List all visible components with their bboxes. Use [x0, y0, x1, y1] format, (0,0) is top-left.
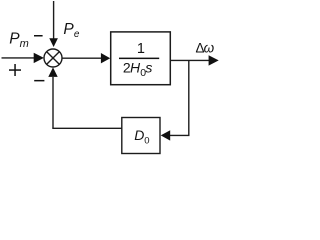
summing junction circle	[44, 49, 62, 67]
wire: D0 output horizontal to lower-left corner	[52, 127, 122, 129]
arrowhead: bottom input (points up)	[48, 67, 57, 77]
svg-text:P: P	[63, 21, 74, 38]
svg-text:s: s	[145, 60, 152, 76]
svg-text:e: e	[74, 29, 80, 40]
arrowhead: into D0 block (points left)	[161, 130, 171, 140]
svg-text:1: 1	[137, 41, 145, 57]
wire: feedback horizontal into D0 block	[170, 134, 190, 136]
svg-text:P: P	[9, 31, 20, 48]
svg-text:m: m	[20, 38, 29, 50]
summing junction X diagonal 2	[47, 52, 60, 65]
wire: top input vertical into summing junction	[53, 1, 55, 40]
arrowhead: top input (points down)	[49, 38, 58, 47]
svg-text:ω: ω	[204, 41, 215, 56]
arrowhead: into plant block (points right)	[101, 53, 110, 63]
svg-text:0: 0	[144, 136, 149, 147]
wire: summing junction output to plant block	[62, 57, 102, 59]
fraction bar	[119, 58, 159, 60]
wire: bottom feedback vertical into summing junction	[52, 77, 54, 128]
minus sign: bottom input polarity	[34, 80, 44, 82]
block D0	[122, 118, 160, 154]
block U1: 1/(2H0s)	[111, 32, 171, 85]
arrowhead: output (points right)	[209, 55, 219, 65]
wire: feedback vertical from output line	[188, 60, 190, 135]
minus sign: top input polarity	[34, 35, 43, 37]
summing junction X diagonal 1	[47, 52, 60, 65]
plus sign: left input polarity	[9, 69, 21, 71]
wire: plant output horizontal	[170, 59, 209, 61]
arrowhead: left input (points right)	[34, 53, 44, 63]
svg-text:D: D	[134, 127, 144, 143]
wire: left input horizontal Pm	[2, 57, 35, 59]
